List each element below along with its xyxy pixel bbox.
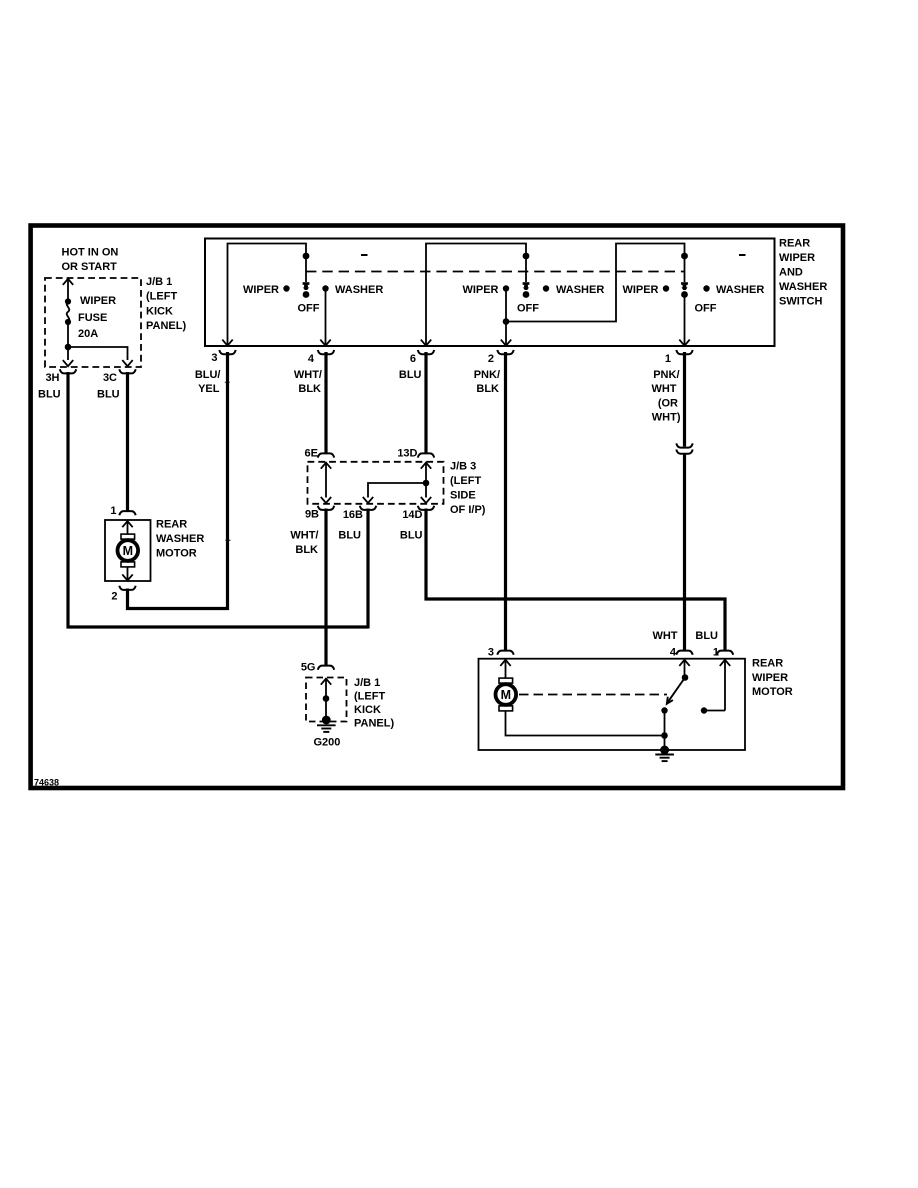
svg-text:6: 6: [410, 353, 416, 365]
artifact tick on BLU/YEL wire lower: [225, 540, 230, 541]
svg-text:WHT/: WHT/: [290, 529, 318, 541]
svg-text:BLK: BLK: [295, 544, 318, 556]
svg-text:(OR: (OR: [658, 397, 678, 409]
svg-text:4: 4: [670, 646, 677, 658]
connector 3H: [60, 369, 76, 373]
svg-text:13D: 13D: [397, 447, 417, 459]
svg-text:PNK/: PNK/: [474, 369, 500, 381]
contact dot: S1 OFF: [303, 291, 310, 298]
svg-text:4: 4: [308, 353, 315, 365]
park switch blade: [667, 678, 685, 704]
svg-text:WIPER: WIPER: [622, 284, 658, 296]
mechanical link dashed line between switch sections: [306, 271, 685, 273]
label: REAR WIPER AND WASHER SWITCH: [779, 238, 827, 308]
svg-text:WIPER: WIPER: [752, 672, 788, 684]
svg-text:BLU: BLU: [695, 630, 718, 642]
svg-text:HOT IN ON: HOT IN ON: [62, 246, 119, 258]
wire: switch 1 feed from pin 3 up to common: [228, 244, 307, 347]
contact dot: S2 WIPER: [503, 285, 509, 291]
label: washer motor pin 1: [110, 505, 116, 517]
svg-text:WIPER: WIPER: [779, 252, 815, 264]
connector 2 of rear washer motor: [119, 586, 135, 590]
node: ground junction dot: [661, 732, 668, 739]
label: 16B BLU: [338, 529, 361, 541]
artifact dash mark right: [739, 254, 746, 256]
node: junction dot inside bottom J/B1: [323, 695, 330, 702]
junction block J/B 1 (left kick panel) dashed box: [45, 278, 141, 367]
wire: 3H BLU down then right to 16B: [68, 372, 368, 627]
wire: PNK/WHT continues down to rear wiper motor pin 4: [683, 454, 686, 651]
wire: S2 WIPER contact down to pin 2: [505, 289, 507, 347]
arrow exit 3H at J/B1 bottom: [63, 360, 73, 366]
motor M1: rear washer motor: [118, 534, 139, 567]
svg-text:3: 3: [488, 646, 494, 658]
svg-text:74638: 74638: [34, 778, 59, 788]
svg-text:PANEL): PANEL): [146, 320, 186, 332]
svg-text:3: 3: [211, 352, 217, 364]
connector 1 of rear washer motor: [119, 511, 135, 515]
svg-text:KICK: KICK: [146, 305, 173, 317]
wire: branch from S2 wiper junction to switch 3 common: [506, 244, 685, 322]
J/B3 internal path 6E to 9B: [321, 463, 331, 503]
REAR WASHER MOTOR box: [105, 520, 151, 581]
wiper motor internal: pin 4 entry arrow: [679, 660, 689, 677]
svg-text:BLU: BLU: [97, 388, 120, 400]
svg-text:WASHER: WASHER: [779, 281, 827, 293]
label: J/B 3 (LEFT SIDE OF I/P): [450, 461, 486, 516]
artifact dash mark left: [361, 254, 368, 256]
node: switch 3 common dot: [681, 253, 688, 260]
wire: pin 1 PNK/WHT down to inline connector: [683, 352, 686, 447]
connector 1 of rear wiper motor: [717, 651, 733, 655]
svg-text:YEL: YEL: [198, 383, 220, 395]
svg-text:WASHER: WASHER: [556, 284, 604, 296]
svg-text:5G: 5G: [301, 661, 316, 673]
label: 6E and 13D: [305, 447, 418, 459]
junction block J/B 3 dashed box: [308, 462, 444, 504]
connector 13D: [418, 453, 434, 457]
label: G200: [314, 736, 341, 748]
J/B3 internal path 13D to 14D: [421, 463, 431, 503]
wire: wiper motor bottom to ground junction: [506, 711, 666, 736]
svg-text:J/B 3: J/B 3: [450, 461, 476, 473]
svg-text:2: 2: [488, 353, 494, 365]
label: washer motor pin 2: [111, 591, 117, 603]
connector pin 1 of switch: [676, 350, 692, 354]
svg-text:6E: 6E: [305, 447, 318, 459]
svg-text:MOTOR: MOTOR: [156, 547, 197, 559]
label: 9B 16B 14D: [305, 508, 423, 521]
contact dot: S3 OFF: [681, 291, 688, 298]
label: 3C BLU: [97, 372, 120, 401]
wire: 14D BLU down then right to rear wiper motor pin 1: [426, 509, 725, 651]
svg-text:PNK/: PNK/: [653, 369, 679, 381]
svg-text:(LEFT: (LEFT: [354, 691, 385, 703]
connector pin 6 of switch: [418, 350, 434, 354]
connector 14D: [418, 506, 434, 510]
svg-text:WASHER: WASHER: [156, 533, 204, 545]
svg-text:16B: 16B: [343, 509, 363, 521]
label: 3H BLU: [38, 372, 61, 401]
label: S1 WIPER OFF WASHER: [243, 284, 383, 315]
pin arrows at switch box bottom: [222, 340, 689, 346]
node: J/B3 junction dot on 13D line: [423, 480, 430, 487]
label: wire 6 BLU: [399, 369, 422, 381]
label: wire 4 WHT/BLK: [294, 369, 322, 395]
svg-text:REAR: REAR: [779, 238, 810, 250]
label: wiper motor pin numbers 3 4 1: [488, 646, 719, 658]
switch blade S2 (in OFF position): [523, 256, 530, 290]
washer motor internal: entry arrow: [122, 521, 132, 534]
dashed mechanical link motor to park switch: [519, 694, 667, 696]
contact dot: S1 WIPER: [283, 285, 289, 291]
fuse: WIPER FUSE 20A: [65, 298, 71, 325]
contact dot: S1 WASHER: [322, 285, 328, 291]
wire: pin 1 to park switch right contact: [704, 710, 725, 712]
svg-text:1: 1: [665, 353, 671, 365]
contact dot: S3 WASHER: [703, 285, 709, 291]
wire: S1 WASHER contact down to pin 4: [325, 289, 327, 347]
contact dot: S3 WIPER: [663, 285, 669, 291]
svg-text:WHT: WHT: [652, 630, 677, 642]
node: switch 1 common dot: [303, 253, 310, 260]
switch blade S1 (in OFF position): [303, 256, 310, 290]
svg-text:BLK: BLK: [298, 383, 321, 395]
inline connector on PNK/WHT wire: [676, 443, 692, 453]
label: HOT IN ON OR START: [62, 246, 119, 273]
arrow feed into J/B1 from HOT: [63, 279, 73, 285]
svg-text:3H: 3H: [45, 372, 59, 384]
REAR WIPER AND WASHER SWITCH box: [205, 239, 775, 347]
wire: S3 OFF contact down to pin 1: [684, 295, 686, 347]
svg-text:SWITCH: SWITCH: [779, 296, 822, 308]
svg-text:OR START: OR START: [62, 261, 118, 273]
connector 9B: [318, 506, 334, 510]
svg-text:2: 2: [111, 591, 117, 603]
svg-text:BLU: BLU: [338, 529, 361, 541]
label: J/B 1 (LEFT KICK PANEL) bottom: [354, 677, 394, 729]
svg-text:OF I/P): OF I/P): [450, 504, 486, 516]
wire: pin 3 BLU/YEL down then left to washer motor pin 2: [128, 352, 228, 609]
svg-text:MOTOR: MOTOR: [752, 686, 793, 698]
node: switch 2 common dot: [523, 253, 530, 260]
connector pin 4 of switch: [318, 350, 334, 354]
wiper motor internal: pin 3 entry arrow: [500, 660, 510, 678]
svg-text:BLU: BLU: [399, 369, 422, 381]
junction block J/B 1 (bottom, ground) dashed box: [306, 678, 347, 722]
wire: pin 4 WHT/BLK down to 6E: [324, 352, 327, 453]
svg-text:9B: 9B: [305, 508, 319, 520]
svg-text:AND: AND: [779, 267, 803, 279]
label: wire 2 PNK/BLK: [474, 369, 500, 395]
washer motor internal: exit arrow: [122, 567, 132, 580]
label: S2 WIPER OFF WASHER: [462, 284, 604, 315]
ground G200: [317, 716, 336, 732]
contact dot: S2 OFF: [523, 291, 530, 298]
connector pin 3 of switch: [219, 350, 235, 354]
outer border frame: [31, 226, 843, 789]
svg-text:1: 1: [110, 505, 116, 517]
svg-text:WASHER: WASHER: [716, 284, 764, 296]
REAR WIPER MOTOR box: [479, 659, 746, 750]
svg-text:20A: 20A: [78, 328, 98, 340]
svg-text:G200: G200: [314, 736, 341, 748]
svg-text:BLK: BLK: [476, 383, 499, 395]
wire: 3C BLU down to washer motor pin 1: [126, 372, 129, 511]
svg-text:OFF: OFF: [517, 302, 539, 314]
label: wire 3 BLU/YEL: [195, 369, 221, 395]
artifact tick on BLU/YEL wire: [225, 382, 230, 383]
wire: J/B1 feed to fuse: [67, 280, 69, 301]
svg-text:1: 1: [713, 646, 719, 658]
label: REAR WIPER MOTOR: [752, 658, 793, 699]
svg-text:WHT/: WHT/: [294, 369, 322, 381]
svg-text:WIPER: WIPER: [80, 295, 116, 307]
label: 14D BLU: [400, 529, 423, 541]
wire: 16B BLU down to junction with 3H: [366, 509, 369, 629]
pin number labels of switch: [211, 352, 671, 365]
wire: fuse output to junction: [67, 322, 69, 360]
contact dot: S2 WASHER: [543, 285, 549, 291]
label: REAR WASHER MOTOR: [156, 518, 204, 559]
label: S3 WIPER OFF WASHER: [622, 284, 764, 315]
contact dot: park switch left (ground side): [661, 707, 667, 713]
connector 6E: [318, 453, 334, 457]
svg-text:PANEL): PANEL): [354, 717, 394, 729]
wire: pin 2 PNK/BLK down to rear wiper motor pin 3: [504, 352, 507, 651]
svg-text:(LEFT: (LEFT: [450, 475, 481, 487]
label: rear wiper motor pin wire WHT: [652, 630, 677, 642]
svg-text:J/B 1: J/B 1: [146, 276, 172, 288]
wire: ground junction down to case ground: [664, 736, 666, 751]
connector 5G: [318, 666, 334, 670]
svg-text:(LEFT: (LEFT: [146, 291, 177, 303]
label: WIPER FUSE 20A: [78, 295, 116, 340]
svg-text:WHT: WHT: [651, 383, 676, 395]
wire: J/B1 internal branch to 3C exit: [68, 347, 128, 360]
node: park switch pivot dot: [682, 674, 689, 681]
svg-text:BLU: BLU: [38, 388, 61, 400]
wire: switch 2 feed from pin 6 up to common: [426, 244, 526, 347]
svg-text:3C: 3C: [103, 372, 117, 384]
svg-text:BLU/: BLU/: [195, 369, 221, 381]
junction dot inside J/B1: [65, 344, 72, 351]
svg-text:OFF: OFF: [298, 302, 320, 314]
contact dot: park switch right (BLU side): [701, 707, 707, 713]
node: S2 wiper junction dot: [503, 318, 510, 325]
connector 3C: [119, 369, 135, 373]
wire: 9B WHT/BLK down to 5G: [324, 509, 327, 666]
wiper motor internal: pin 1 entry arrow: [720, 660, 730, 711]
svg-text:OFF: OFF: [695, 302, 717, 314]
svg-text:WIPER: WIPER: [243, 284, 279, 296]
switch blade S3 (in OFF position): [681, 256, 688, 290]
label: J/B 1 (LEFT KICK PANEL): [146, 276, 186, 332]
wire: park switch left contact down to ground junction: [664, 711, 666, 736]
connector pin 2 of switch: [497, 350, 513, 354]
svg-text:FUSE: FUSE: [78, 312, 107, 324]
label: 5G: [301, 661, 316, 673]
label: wire 1 PNK/WHT (OR WHT): [651, 369, 680, 424]
svg-text:WASHER: WASHER: [335, 284, 383, 296]
label: rear wiper motor pin wire BLU: [695, 630, 718, 642]
svg-text:WHT): WHT): [652, 411, 681, 423]
arrow exit 3C at J/B1 bottom: [122, 360, 132, 366]
motor M2: rear wiper motor: [496, 678, 517, 711]
connector 4 of rear wiper motor: [676, 651, 692, 655]
J/B3 internal branch to 16B: [363, 483, 426, 503]
svg-text:BLU: BLU: [400, 529, 423, 541]
svg-text:REAR: REAR: [752, 658, 783, 670]
connector 3 of rear wiper motor: [497, 651, 513, 655]
connector 16B: [360, 506, 376, 510]
ground: rear wiper motor case: [655, 746, 674, 762]
svg-text:J/B 1: J/B 1: [354, 677, 380, 689]
svg-text:KICK: KICK: [354, 704, 381, 716]
J/B1 ground path: entry arrow and wire: [321, 679, 331, 720]
wire: pin 6 BLU down to 13D: [424, 352, 427, 453]
svg-text:WIPER: WIPER: [462, 284, 498, 296]
label: 9B WHT/BLK: [290, 529, 318, 555]
svg-text:REAR: REAR: [156, 518, 187, 530]
svg-text:SIDE: SIDE: [450, 489, 476, 501]
svg-text:14D: 14D: [402, 509, 422, 521]
